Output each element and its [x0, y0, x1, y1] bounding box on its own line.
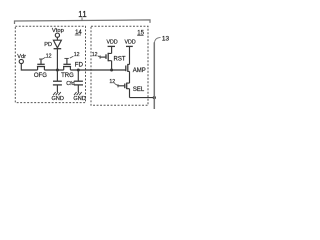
label 12 (RST) with leader [92, 52, 100, 58]
svg-text:Cfd: Cfd [66, 81, 74, 87]
block 14 dashed box (photoelectric conversion portion) [15, 26, 85, 102]
junction node on vertical signal line [153, 96, 156, 99]
svg-text:OFG: OFG [34, 73, 47, 79]
junction node FD [77, 69, 80, 72]
label 12 (OFG) with leader [42, 53, 51, 59]
svg-text:AMP: AMP [133, 68, 146, 74]
svg-text:VDD: VDD [107, 40, 118, 46]
transistor AMP [126, 64, 130, 83]
terminal VDD (left) [107, 40, 118, 54]
block 15 dashed box (readout circuit) [91, 26, 148, 105]
junction node FD wire / RST source [110, 69, 113, 72]
capacitor (PD node) [53, 70, 62, 92]
capacitor Cfd [74, 70, 83, 92]
label 14 [75, 30, 83, 36]
svg-text:12: 12 [74, 52, 80, 58]
svg-text:GND: GND [73, 96, 85, 102]
label 13 with hook leader [154, 35, 169, 42]
wire SEL output to vertical signal line [130, 97, 155, 99]
terminal Vdr [17, 54, 26, 64]
wire OFG to TRG [44, 69, 63, 71]
svg-text:TRG: TRG [61, 73, 74, 79]
transistor SEL [118, 83, 130, 98]
svg-text:VDD: VDD [125, 40, 136, 46]
ground (left) [53, 92, 61, 95]
label 11 [78, 10, 87, 21]
junction node PD/capacitor [56, 69, 59, 72]
brace 11 (extent line over pixel) [15, 20, 151, 24]
svg-text:12: 12 [92, 52, 98, 58]
svg-text:PD: PD [44, 42, 52, 48]
transistor OFG [37, 59, 45, 70]
svg-text:12: 12 [46, 53, 52, 59]
wire TRG to FD and AMP gate [70, 69, 125, 71]
label 12 (TRG) with leader [70, 52, 80, 58]
label 15 [137, 31, 144, 37]
label 12 (SEL) with leader [109, 79, 117, 85]
transistor TRG [63, 58, 71, 70]
svg-text:FD: FD [75, 61, 84, 68]
transistor RST [100, 53, 112, 70]
terminal Vtop [52, 28, 64, 40]
ground (right) [74, 92, 82, 95]
svg-text:12: 12 [109, 79, 115, 85]
vertical signal line 13 [153, 42, 155, 109]
svg-text:11: 11 [78, 10, 87, 19]
wire Vdr to OFG [21, 64, 37, 70]
svg-text:GND: GND [52, 96, 64, 102]
svg-text:SEL: SEL [133, 87, 145, 93]
svg-text:13: 13 [162, 35, 170, 42]
photodiode PD [53, 40, 61, 70]
svg-text:RST: RST [114, 56, 126, 62]
terminal VDD (right) [125, 40, 136, 65]
